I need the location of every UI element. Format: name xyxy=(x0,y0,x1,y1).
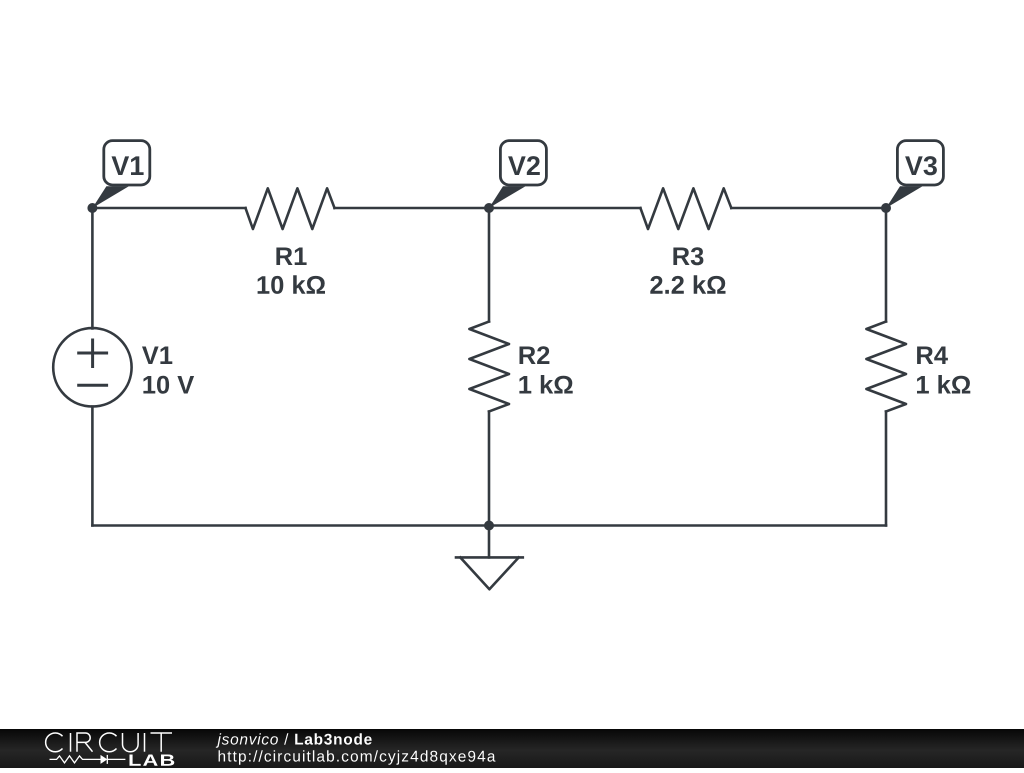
node V3 flag xyxy=(886,141,943,208)
wire R4 to bottom rail xyxy=(885,412,888,526)
label R3 value xyxy=(650,247,725,294)
node V2 flag xyxy=(489,141,546,208)
wire node V2 down to R2 xyxy=(488,208,491,322)
wire node V1 down to source V1 xyxy=(91,208,94,329)
wire bottom ground rail xyxy=(92,524,886,527)
resistor R2 xyxy=(469,322,509,412)
wire R1 to node V2 xyxy=(335,207,490,210)
wire node V1 to R1 xyxy=(92,207,245,210)
footer title xyxy=(216,733,372,747)
junction bottom rail / ground xyxy=(484,521,494,531)
voltage source V1 circle xyxy=(53,328,131,406)
wire node V3 down to R4 xyxy=(885,208,888,322)
ground symbol xyxy=(456,526,523,590)
footer logo CIRCUIT lettering xyxy=(46,733,172,752)
resistor R4 xyxy=(866,322,906,412)
wire R3 to node V3 xyxy=(731,207,886,210)
wire R2 to bottom rail xyxy=(488,412,491,526)
label V1 value xyxy=(142,347,194,394)
label R2 value xyxy=(519,346,572,393)
label R4 value xyxy=(917,347,970,394)
voltage source V1 plus sign xyxy=(79,340,107,367)
resistor R3 xyxy=(640,188,731,229)
wire source V1 to bottom rail xyxy=(91,407,94,526)
junction node V1 xyxy=(87,203,97,213)
label R1 value xyxy=(258,248,325,294)
voltage source V1 minus sign xyxy=(79,384,107,387)
junction node V3 xyxy=(881,203,891,213)
junction node V2 xyxy=(484,203,494,213)
footer logo LAB lettering xyxy=(130,755,175,766)
node V1 flag xyxy=(92,141,149,208)
resistor R1 xyxy=(246,188,335,229)
footer bar xyxy=(0,729,1024,768)
footer logo resistor-diode doodle xyxy=(50,755,126,764)
footer url xyxy=(219,750,496,764)
wire node V2 to R3 xyxy=(489,207,640,210)
